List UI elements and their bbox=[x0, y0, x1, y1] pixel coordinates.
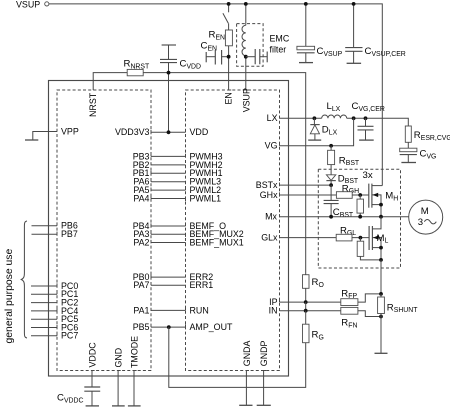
wire NRST net bbox=[93, 73, 127, 90]
pin stub PC1 bbox=[31, 292, 57, 295]
wire M_L source to R_SHUNT bbox=[380, 260, 382, 294]
resistor R_FN bbox=[341, 307, 358, 329]
svg-text:PC7: PC7 bbox=[61, 331, 78, 341]
pin stub PC5 bbox=[31, 317, 57, 320]
resistor R_SHUNT bbox=[378, 294, 419, 353]
pin VG bbox=[265, 118, 354, 150]
ground (GND) bbox=[112, 405, 125, 407]
ground (C_VDDC) bbox=[86, 405, 99, 407]
capacitor C_VG,CER bbox=[352, 101, 385, 140]
svg-text:VDDC: VDDC bbox=[87, 342, 97, 368]
node VSUP terminal bbox=[16, 0, 49, 9]
svg-text:general purpose use: general purpose use bbox=[4, 249, 15, 344]
ground (R_SHUNT) bbox=[375, 352, 388, 354]
pin row PA3/BEMF_MUX2 bbox=[133, 229, 243, 239]
junction IN / R_G bbox=[304, 309, 308, 313]
svg-text:VG: VG bbox=[265, 141, 278, 151]
junction LX / D_LX bbox=[313, 116, 317, 120]
pin row PA2/BEMF_MUX1 bbox=[133, 237, 243, 247]
transistor M_H bbox=[369, 184, 399, 217]
left dashed block bbox=[57, 90, 151, 371]
junction rail / C_VSUP bbox=[304, 2, 308, 6]
junction R_SHUNT top bbox=[379, 292, 383, 296]
pin stub PC6 bbox=[31, 325, 57, 328]
capacitor C_VDD bbox=[160, 45, 201, 132]
svg-text:VPP: VPP bbox=[61, 127, 79, 137]
svg-text:EN: EN bbox=[223, 92, 233, 104]
junction R_O / IP bbox=[304, 300, 308, 304]
svg-text:RUN: RUN bbox=[190, 305, 209, 315]
resistor gate-source M_L bbox=[357, 238, 381, 260]
resistor R_GH bbox=[336, 183, 368, 198]
pin row PA7/ERR1 bbox=[133, 280, 213, 290]
pin row PB3/PWMH3 bbox=[133, 151, 223, 161]
svg-text:ERR1: ERR1 bbox=[190, 280, 214, 290]
pin LX bbox=[267, 113, 322, 123]
pin VPP bbox=[33, 127, 79, 140]
junction C_VG,CER bbox=[364, 116, 368, 120]
svg-text:GLx: GLx bbox=[261, 233, 278, 243]
inductor (EMC filter) bbox=[242, 4, 248, 90]
brace general purpose use bbox=[21, 221, 27, 338]
junction PB5 / amp feedback bbox=[167, 325, 171, 329]
pin row PA4/PWML1 bbox=[133, 193, 221, 203]
junction C_VDD / VDD3V3 bbox=[167, 130, 171, 134]
pin row PA1/RUN bbox=[133, 305, 208, 315]
svg-text:EMC: EMC bbox=[270, 34, 290, 44]
pin stub PC4 bbox=[31, 308, 57, 311]
switch (enable) bbox=[223, 4, 229, 30]
wire L_LX to R_ESR,CVG bbox=[347, 118, 409, 126]
chip outer box bbox=[49, 81, 289, 377]
resistor R_NRST bbox=[124, 59, 150, 76]
svg-text:PWML1: PWML1 bbox=[190, 193, 222, 203]
svg-text:PB7: PB7 bbox=[61, 229, 78, 239]
capacitor C_VDDC bbox=[57, 387, 100, 406]
pin stub PB7 bbox=[32, 232, 58, 235]
svg-text:PA4: PA4 bbox=[133, 193, 149, 203]
resistor R_GL bbox=[336, 225, 369, 241]
transistor M_L bbox=[369, 217, 388, 260]
resistor R_EN bbox=[209, 30, 233, 91]
resistor R_BST bbox=[328, 146, 360, 175]
ground (GNDA) bbox=[239, 404, 252, 406]
capacitor C_VSUP,CER bbox=[345, 4, 406, 63]
wire R_FP to R_SHUNT top bbox=[358, 294, 381, 302]
pin row PA5/PWML2 bbox=[133, 185, 221, 195]
capacitor (EMC filter) bbox=[246, 49, 267, 64]
ground (C_VSUP,CER) bbox=[347, 62, 362, 64]
pin Mx bbox=[265, 212, 409, 222]
pin stub PB6 bbox=[32, 223, 58, 226]
pin IN bbox=[269, 306, 341, 316]
svg-text:BSTx: BSTx bbox=[256, 180, 278, 190]
diode D_LX bbox=[310, 118, 337, 140]
pin BSTx bbox=[256, 180, 331, 190]
pin stub PC2 bbox=[31, 300, 57, 303]
svg-text:TMODE: TMODE bbox=[130, 336, 140, 368]
svg-text:M: M bbox=[421, 206, 429, 217]
resistor R_ESR,CVG bbox=[405, 126, 450, 148]
junction on rail at switch bbox=[227, 2, 231, 6]
pin row PB4/BEMF_O bbox=[133, 221, 226, 231]
capacitor C_VG bbox=[400, 148, 437, 162]
pin GLx bbox=[261, 233, 336, 243]
svg-text:GNDP: GNDP bbox=[259, 340, 269, 366]
wire TMODE pin down bbox=[134, 371, 137, 406]
svg-text:LX: LX bbox=[267, 113, 278, 123]
pin row PB1/PWMH1 bbox=[133, 168, 223, 178]
junction gate M_L bbox=[359, 236, 363, 240]
inductor L_LX bbox=[322, 101, 347, 118]
ground (GNDP) bbox=[257, 404, 271, 406]
svg-text:PA1: PA1 bbox=[133, 305, 149, 315]
svg-text:GHx: GHx bbox=[260, 190, 278, 200]
wire VSUP top rail bbox=[49, 4, 382, 186]
resistor gate-source M_H bbox=[357, 195, 364, 217]
capacitor C_VSUP bbox=[297, 4, 343, 63]
svg-text:VSUP: VSUP bbox=[241, 88, 251, 112]
pin row PB2/PWMH2 bbox=[133, 160, 223, 170]
resistor R_G bbox=[303, 311, 324, 343]
wire VDD3V3 to VDD bbox=[151, 130, 186, 133]
junction on rail at inductor bbox=[244, 2, 248, 6]
junction BSTx / D_BST / C_BST bbox=[329, 183, 333, 187]
svg-text:filter: filter bbox=[270, 45, 287, 55]
pin stub PC7 bbox=[31, 333, 57, 336]
wire VDD net (R_NRST to corner, down to R_O) bbox=[143, 73, 306, 275]
svg-text:3x: 3x bbox=[363, 170, 373, 181]
svg-text:VDD: VDD bbox=[190, 127, 209, 137]
svg-text:PB5: PB5 bbox=[133, 322, 150, 332]
wire IP to IN via R_O column bbox=[305, 302, 307, 311]
ground (D_LX) bbox=[308, 139, 321, 141]
junction gate M_H bbox=[358, 193, 362, 197]
right dashed block bbox=[186, 90, 280, 371]
junction Mx / M_H source / M_L drain bbox=[379, 215, 383, 219]
junction inductor / filter cap bbox=[244, 55, 248, 59]
svg-text:VSUP: VSUP bbox=[16, 0, 40, 9]
wire R_FN to R_SHUNT bottom bbox=[358, 311, 381, 317]
diode D_BST bbox=[326, 173, 359, 185]
ground (C_VG) bbox=[401, 162, 416, 164]
wire GNDP pin down bbox=[264, 371, 267, 406]
svg-text:GNDA: GNDA bbox=[242, 340, 252, 366]
pin row PB5/AMP_OUT bbox=[133, 322, 233, 332]
ground (VPP) bbox=[25, 139, 38, 141]
ground (C_VG,CER) bbox=[359, 139, 374, 141]
wire amp feedback (R_G to PB5) bbox=[169, 327, 306, 387]
junction R_SHUNT bottom bbox=[379, 315, 383, 319]
pin stub PC0 bbox=[31, 283, 57, 286]
svg-text:3: 3 bbox=[418, 217, 423, 228]
svg-text:GND: GND bbox=[114, 348, 124, 368]
pin row PB0/ERR2 bbox=[133, 272, 214, 282]
pin row PA6/PWML3 bbox=[133, 177, 221, 187]
svg-text:IN: IN bbox=[269, 306, 278, 316]
svg-text:VDD3V3: VDD3V3 bbox=[115, 127, 150, 137]
junction VG / R_BST bbox=[329, 144, 333, 148]
EMC filter dashed box bbox=[237, 24, 264, 67]
resistor R_FP bbox=[341, 288, 358, 305]
resistor R_O bbox=[303, 275, 325, 302]
wire VDDC pin down bbox=[92, 371, 95, 388]
junction M_L source / gate return bbox=[379, 258, 383, 262]
junction C_VDD / VDD net bbox=[167, 71, 171, 75]
svg-text:PA7: PA7 bbox=[133, 280, 149, 290]
junction R_EN / C_EN node bbox=[227, 55, 231, 59]
junction VG riser bbox=[352, 116, 356, 120]
pin GHx bbox=[260, 190, 337, 200]
ground (C_VSUP) bbox=[299, 62, 313, 64]
junction Mx / C_BST bbox=[329, 215, 333, 219]
svg-text:AMP_OUT: AMP_OUT bbox=[190, 322, 233, 332]
junction Mx / gate resistor return bbox=[358, 215, 362, 219]
pin IP bbox=[269, 297, 341, 307]
svg-text:BEMF_MUX1: BEMF_MUX1 bbox=[190, 237, 244, 247]
motor M 3~ bbox=[409, 200, 443, 234]
svg-text:PA2: PA2 bbox=[133, 237, 149, 247]
capacitor C_BST bbox=[324, 185, 354, 219]
junction M_H source bbox=[379, 203, 383, 207]
junction M_L source bbox=[379, 246, 383, 250]
ground (TMODE) bbox=[128, 405, 141, 407]
svg-text:NRST: NRST bbox=[88, 92, 98, 117]
capacitor C_EN bbox=[201, 41, 229, 65]
junction rail / C_VSUP,CER bbox=[352, 2, 356, 6]
wire GNDA pin down bbox=[246, 371, 249, 406]
svg-text:Mx: Mx bbox=[265, 212, 277, 222]
power stage dashed box bbox=[318, 169, 400, 268]
wire GND pin down bbox=[118, 371, 121, 406]
